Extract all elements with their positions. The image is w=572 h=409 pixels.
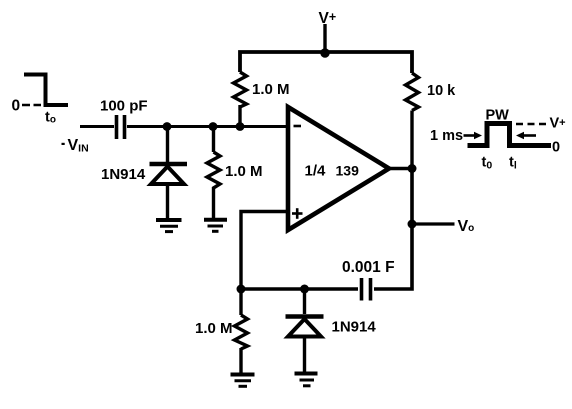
resistor R3 10 k <box>406 73 419 169</box>
node label VIN <box>62 137 89 154</box>
svg-text:1N914: 1N914 <box>101 166 146 183</box>
svg-text:0: 0 <box>552 140 560 156</box>
ground (R2) <box>204 220 227 232</box>
output pulse waveform <box>468 124 552 146</box>
junction node A dot 2 <box>209 122 218 131</box>
diode D2 1N914 <box>286 289 324 372</box>
svg-text:1.0 M: 1.0 M <box>252 81 290 98</box>
wire feedback line <box>241 287 358 290</box>
junction dot feedback left node <box>237 285 246 294</box>
svg-text:1.0 M: 1.0 M <box>225 163 263 180</box>
ground (D2) <box>295 374 318 386</box>
resistor R1 1.0 M <box>234 72 247 127</box>
input step waveform <box>22 75 68 106</box>
junction dot Vo tap <box>408 220 417 229</box>
junction node A dot 3 <box>236 122 245 131</box>
inverting input marker - <box>294 125 302 128</box>
svg-text:139: 139 <box>336 163 360 179</box>
power V+ terminal <box>320 24 329 58</box>
dashed V+ level line <box>516 123 548 126</box>
svg-text:100 pF: 100 pF <box>100 98 148 115</box>
resistor R4 1.0 M <box>235 289 248 373</box>
junction node A dot 1 <box>163 122 172 131</box>
capacitor C2 <box>362 278 371 301</box>
resistor R2 1.0 M <box>207 127 220 220</box>
diode D1 1N914 <box>150 127 188 220</box>
wire C1 to inverting input <box>127 125 290 128</box>
wire V+ top rail <box>240 52 412 73</box>
wire input to C1 <box>80 125 114 128</box>
wire output node down to C2 <box>374 169 412 290</box>
svg-text:1.0 M: 1.0 M <box>195 320 233 337</box>
ground (D1) <box>156 220 182 232</box>
wire output <box>388 167 413 170</box>
wire non-inverting input <box>241 212 290 290</box>
svg-text:1 ms: 1 ms <box>430 128 463 144</box>
non-inverting input marker + <box>292 208 303 219</box>
svg-text:0: 0 <box>12 97 21 114</box>
svg-text:PW: PW <box>486 108 510 124</box>
svg-text:10 k: 10 k <box>427 83 456 99</box>
svg-text:1/4: 1/4 <box>305 163 327 180</box>
capacitor C1 <box>117 115 125 139</box>
arrow pointing left at falling edge <box>516 132 536 139</box>
junction dot output node <box>408 164 417 173</box>
ground (R4) <box>231 375 255 387</box>
wire Vo stub <box>412 222 455 225</box>
svg-text:0.001 F: 0.001 F <box>342 259 395 276</box>
op-amp U1 1/4 139 comparator <box>288 107 389 230</box>
junction dot D2 tap <box>300 285 309 294</box>
svg-text:1N914: 1N914 <box>332 319 377 336</box>
arrow pointing right at rising edge <box>464 132 483 139</box>
